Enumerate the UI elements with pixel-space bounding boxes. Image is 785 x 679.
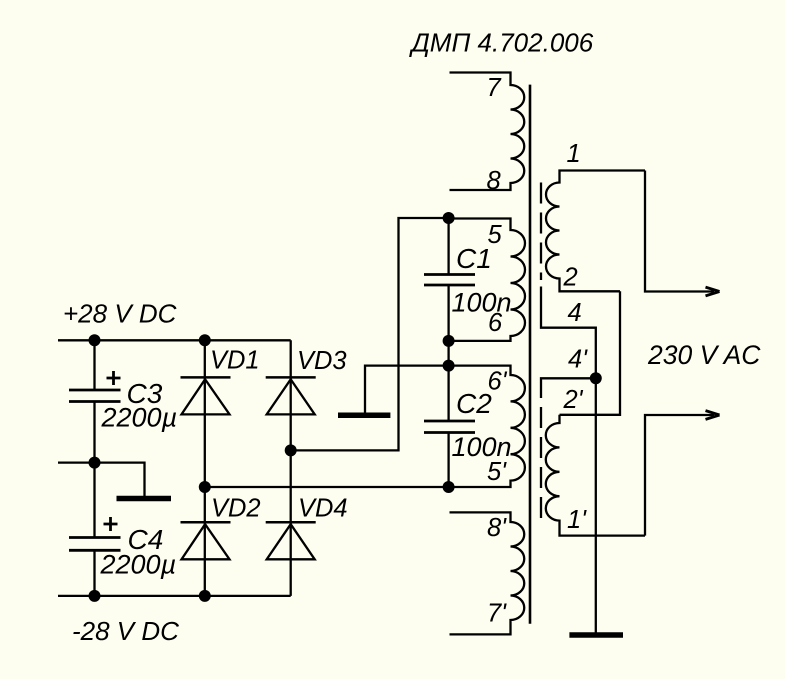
svg-text:ДМП 4.702.006: ДМП 4.702.006 [409,28,594,58]
node -28 rail / C4 [89,590,101,602]
node 6' [443,360,455,372]
diode VD1 [181,376,231,379]
arrowhead output 2 [706,411,720,420]
wire VD3/VD4 node to node 5 loop [291,218,449,450]
winding 6'-5' [449,366,525,487]
capacitor C4 plates [69,536,121,539]
winding 5-6 [449,219,525,341]
ground (left) [117,496,172,502]
svg-text:VD3: VD3 [297,347,347,375]
winding 1-2 [546,171,645,292]
svg-text:5': 5' [487,458,507,486]
wire terminal 1 to output arrow [645,171,714,292]
winding 8'-7' [450,512,525,634]
node 5' [443,481,455,493]
screen (top) dashed [540,183,542,281]
wire terminal 1' to output arrow [645,415,714,536]
svg-text:-28 V DC: -28 V DC [72,616,179,646]
wire mid-left stub to ground [58,463,145,496]
svg-text:8': 8' [487,514,507,542]
node +28 rail / VD1 [199,334,211,346]
node 4-4' junction [590,372,602,384]
svg-text:2': 2' [563,386,584,414]
capacitor C2 plates [424,420,475,423]
capacitor C1 plates [424,273,475,276]
winding 2'-1' [546,415,645,536]
svg-text:C1: C1 [456,243,492,274]
node 5 [443,212,455,224]
svg-text:8: 8 [487,167,502,195]
svg-text:230 V AC: 230 V AC [647,340,761,370]
capacitor C1 wires [447,218,449,275]
node 6 [443,335,455,347]
wire screen node to ground [595,378,597,632]
C3 polarity + [107,371,121,385]
svg-text:7: 7 [487,74,502,102]
svg-text:2200µ: 2200µ [100,550,177,580]
node VD3/VD4 [285,444,297,456]
svg-text:VD1: VD1 [210,347,260,375]
svg-text:1: 1 [567,140,581,168]
wire 2 to 2' [560,291,621,415]
node VD1/VD2 [199,481,211,493]
transformer core [529,85,532,624]
svg-text:VD4: VD4 [298,495,348,523]
arrowhead output 1 [706,287,720,296]
capacitor C3 plates [69,389,121,392]
winding 7-8 [450,73,525,191]
svg-text:VD2: VD2 [211,495,261,523]
capacitor C4 wires [93,550,95,596]
svg-text:2: 2 [563,264,578,292]
screen terminal 4 lead [541,287,596,379]
node +28 rail / C3 [89,334,101,346]
screen (bottom) dashed [541,378,596,398]
node mid-left / C3-C4 [89,457,101,469]
wire VD3/VD4 branch [290,340,292,596]
svg-text:4: 4 [568,299,582,327]
svg-text:+28 V DC: +28 V DC [63,299,177,329]
svg-text:1': 1' [567,506,587,534]
svg-text:C2: C2 [456,388,492,419]
wire +28V rail [58,339,291,341]
svg-text:100n: 100n [452,288,512,318]
capacitor C3 wires [93,340,95,390]
diode VD4 [266,521,316,524]
svg-text:2200µ: 2200µ [101,403,178,433]
ground (center) [365,366,449,413]
C4 polarity + [104,517,118,531]
diode VD3 [266,376,316,379]
diode VD2 [181,521,231,524]
ground (right) [569,632,623,638]
wire VD1/VD2 branch [204,340,206,596]
wire VD1/VD2 node to node 5' [205,486,449,488]
svg-text:7': 7' [487,600,507,628]
node -28 rail / VD2 [199,590,211,602]
svg-text:100n: 100n [452,432,512,462]
wire -28V rail [58,595,291,597]
svg-text:4': 4' [568,346,588,374]
